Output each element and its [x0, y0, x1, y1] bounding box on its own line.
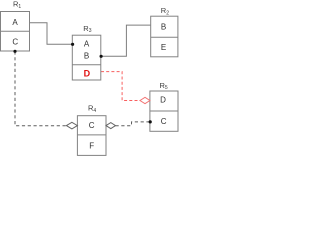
node R2 box: [151, 16, 178, 57]
junction dot on R5 left edge (C): [149, 120, 152, 123]
wire gray dashed R4 right diamond to R5.C: [116, 122, 150, 126]
node R1 box: [1, 12, 30, 52]
svg-text:C: C: [161, 117, 167, 126]
node R3 box: [72, 35, 101, 80]
svg-text:D: D: [160, 96, 166, 105]
aggregation diamond left of R4.C: [66, 122, 77, 129]
svg-text:B: B: [84, 52, 89, 61]
svg-text:D: D: [84, 69, 91, 79]
junction dot on R1 bottom edge (C): [13, 50, 16, 53]
svg-text:B: B: [161, 22, 166, 31]
svg-text:C: C: [12, 38, 18, 47]
svg-text:F: F: [89, 141, 94, 150]
junction dot on R3 right edge (B): [100, 55, 103, 58]
svg-text:A: A: [12, 18, 18, 27]
wire red dashed R3.D to R5.D: [101, 72, 140, 101]
svg-text:A: A: [84, 39, 90, 48]
svg-text:E: E: [161, 43, 166, 52]
red aggregation diamond left of R5.D: [140, 97, 150, 103]
node R4 box: [77, 116, 106, 156]
wire conn1 R1.A to R3.A: [30, 23, 73, 45]
svg-text:C: C: [89, 121, 95, 130]
wire gray dashed R1.C down to R4 left diamond: [15, 51, 66, 125]
wire conn2 R3.B to R2.B: [101, 25, 151, 56]
junction dot on R3 left edge (A): [71, 43, 74, 46]
node R5 box: [150, 91, 178, 131]
aggregation diamond right of R4.C: [106, 123, 116, 129]
